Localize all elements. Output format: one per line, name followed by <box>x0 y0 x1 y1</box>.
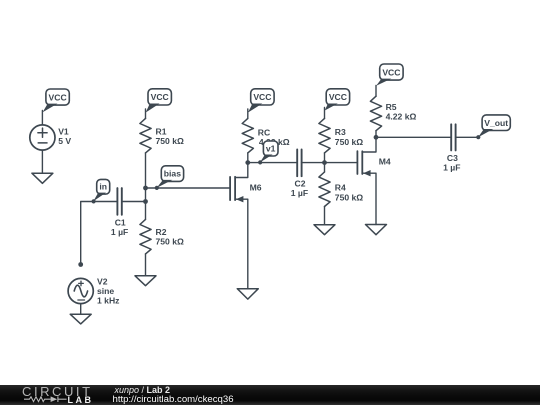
svg-text:1 µF: 1 µF <box>111 227 128 237</box>
capacitor C3 <box>451 124 455 150</box>
svg-text:750 kΩ: 750 kΩ <box>335 192 364 202</box>
label C3 1 uF <box>443 153 460 172</box>
resistor R4 <box>319 172 330 206</box>
svg-text:4.22 kΩ: 4.22 kΩ <box>386 112 417 122</box>
node flag v1 <box>258 141 278 164</box>
wire <box>247 109 249 119</box>
svg-text:V1: V1 <box>58 126 69 136</box>
footer url <box>113 394 234 405</box>
label R4 750 kOhm <box>335 182 364 202</box>
resistor R1 <box>140 118 151 152</box>
svg-text:VCC: VCC <box>151 92 169 102</box>
resistor R3 <box>319 118 330 152</box>
resistor R5 <box>370 96 381 130</box>
svg-text:1 µF: 1 µF <box>443 162 460 172</box>
resistor R2 <box>140 219 151 253</box>
svg-text:750 kΩ: 750 kΩ <box>156 136 185 146</box>
svg-text:C1: C1 <box>115 217 126 227</box>
footer bar <box>0 385 540 405</box>
label RC 4.22 kOhm <box>258 127 290 147</box>
wire <box>41 150 43 173</box>
wire <box>456 136 478 138</box>
svg-text:R5: R5 <box>386 102 397 112</box>
wire <box>145 254 147 276</box>
wire <box>324 207 326 225</box>
svg-text:R1: R1 <box>156 126 167 136</box>
label C1 1 uF <box>111 217 128 237</box>
wire <box>146 187 230 189</box>
label V1 5 V <box>58 126 71 146</box>
node flag in <box>92 179 110 203</box>
ground (R2) <box>135 276 156 286</box>
ground (M6) <box>237 289 258 299</box>
label R3 750 kOhm <box>335 127 364 147</box>
label R2 750 kOhm <box>156 227 185 247</box>
wire <box>324 153 326 172</box>
wire <box>375 131 377 138</box>
svg-text:5 V: 5 V <box>58 136 71 146</box>
svg-text:RC: RC <box>258 127 270 137</box>
svg-text:M4: M4 <box>379 156 391 166</box>
svg-text:750 kΩ: 750 kΩ <box>156 237 185 247</box>
node junction (bias) <box>143 186 148 191</box>
node flag V_out <box>476 115 510 139</box>
svg-text:750 kΩ: 750 kΩ <box>335 137 364 147</box>
wire <box>376 136 451 138</box>
wire <box>325 162 358 164</box>
node junction (v1) <box>245 160 250 165</box>
label V2 sine 1 kHz <box>97 276 119 305</box>
power flag VCC (R3) <box>325 89 350 111</box>
wire <box>145 109 147 119</box>
node dot (V2 terminal) <box>78 262 83 267</box>
capacitor C1 <box>117 188 121 215</box>
svg-text:v1: v1 <box>266 143 276 153</box>
svg-text:1 kHz: 1 kHz <box>97 296 119 306</box>
svg-text:V_out: V_out <box>484 118 508 128</box>
node flag bias <box>155 166 184 190</box>
voltage source V1 <box>30 125 55 150</box>
node junction (out) <box>374 135 379 140</box>
node junction (C1/R2) <box>143 199 148 204</box>
svg-text:R2: R2 <box>156 227 167 237</box>
transistor M6 <box>230 163 248 289</box>
wire <box>81 202 118 265</box>
svg-text:sine: sine <box>97 286 114 296</box>
wire <box>248 162 297 164</box>
transistor M4 <box>357 137 376 224</box>
voltage source V2 sine <box>68 278 93 303</box>
label C2 1 uF <box>291 178 308 198</box>
node junction (R3/R4) <box>322 160 327 165</box>
svg-text:V2: V2 <box>97 276 108 286</box>
resistor RC <box>242 118 253 152</box>
wire <box>375 86 377 97</box>
svg-text:C2: C2 <box>295 178 306 188</box>
wire <box>145 153 147 220</box>
label R1 750 kOhm <box>156 126 185 146</box>
svg-text:VCC: VCC <box>49 92 67 102</box>
svg-text:M6: M6 <box>250 182 262 192</box>
power flag VCC (R1) <box>146 89 172 113</box>
wire <box>80 304 82 315</box>
svg-text:R4: R4 <box>335 182 346 192</box>
power flag VCC (R5) <box>376 64 403 86</box>
svg-text:bias: bias <box>164 169 181 179</box>
power flag VCC (V1) <box>43 89 70 112</box>
svg-text:in: in <box>99 181 107 191</box>
wire <box>247 153 249 163</box>
svg-text:1 µF: 1 µF <box>291 188 308 198</box>
ground (V1) <box>32 173 53 183</box>
wire <box>324 108 326 119</box>
power flag VCC (RC) <box>248 89 274 113</box>
svg-text:VCC: VCC <box>382 67 400 77</box>
wire <box>41 111 43 126</box>
capacitor C2 <box>297 150 301 177</box>
svg-text:R3: R3 <box>335 127 346 137</box>
footer logo CIRCUIT LAB <box>22 384 102 396</box>
ground (R4) <box>314 225 335 235</box>
wire <box>122 201 146 203</box>
wire <box>302 162 325 164</box>
label R5 4.22 kOhm <box>386 102 417 122</box>
ground (V2) <box>70 314 91 324</box>
svg-text:VCC: VCC <box>253 92 271 102</box>
ground (M4) <box>366 225 387 235</box>
footer title xunpo / Lab 2 <box>115 385 171 395</box>
svg-text:VCC: VCC <box>329 92 347 102</box>
